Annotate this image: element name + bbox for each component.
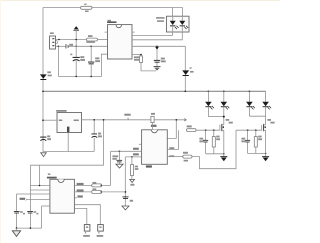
- node gate2-R7 junction: [255, 129, 257, 131]
- ground: [12, 231, 20, 237]
- node bus-LED2 junction: [223, 91, 225, 93]
- capacitor C5: [91, 119, 102, 152]
- wire drop to lower net: [103, 120, 105, 165]
- wire LED box feeds: [172, 8, 174, 17]
- battery symbol: [65, 44, 68, 48]
- resistor R7: [254, 130, 262, 153]
- wire gate2: [236, 129, 262, 131]
- node gate2-C8 junction: [247, 129, 249, 131]
- ground cell2: [262, 153, 269, 161]
- node gnd-C10 junction: [30, 227, 32, 229]
- wire U3 pinR5 to pad1: [74, 208, 86, 224]
- node U3 pin1 junction: [39, 185, 41, 187]
- diode D2: [182, 67, 193, 76]
- capacitor C7: [199, 130, 208, 154]
- wire to U1 pin2: [68, 45, 107, 47]
- wire U3 pin2: [30, 189, 50, 191]
- wire gate2 route: [192, 130, 236, 169]
- node gnd-C9 junction: [16, 227, 18, 229]
- wire U3 pin1: [30, 185, 50, 187]
- resistor R4 gate1: [187, 129, 197, 132]
- pin labels right: [169, 147, 174, 149]
- node VCC-wire1 junction: [75, 39, 77, 41]
- wire U3 pin5: [42, 205, 50, 207]
- node 4.2V line end arrow: [184, 119, 186, 122]
- resistor R9: [92, 190, 102, 193]
- LED D6: [262, 102, 271, 116]
- LED D4: [221, 102, 230, 117]
- resistor R3: [130, 156, 139, 182]
- wire lower vcc link: [30, 164, 103, 166]
- wire stub: [139, 143, 142, 145]
- power flag VCC arrow: [74, 26, 79, 29]
- MCU U3: [47, 173, 75, 213]
- IC U1 charger BQ2057: [107, 20, 132, 59]
- wire LED A cathode to U1: [132, 32, 173, 35]
- LED B: [179, 17, 188, 31]
- wire J1 pin2: [56, 45, 66, 47]
- node R2 top junction: [140, 54, 142, 56]
- wire cell1 bottom: [206, 153, 224, 155]
- wire cell2 join: [249, 115, 265, 117]
- wire U3 pinR1: [74, 184, 91, 186]
- wire to U2: [102, 151, 111, 185]
- node R9-U2 junction: [125, 191, 127, 193]
- node bus-LED1 junction: [208, 91, 210, 93]
- wire to U2 vertical: [102, 157, 126, 206]
- wire gnd bus bottom: [17, 227, 42, 229]
- LED box U5: [156, 16, 189, 32]
- wire top rail: [43, 7, 183, 9]
- wire cell2 bottom: [248, 152, 266, 154]
- node J1 gnd junction: [58, 46, 60, 48]
- wire LED B cathode to U1: [132, 32, 182, 40]
- capacitor C8: [241, 130, 250, 153]
- node bus-D2 junction: [185, 91, 187, 93]
- wire U1 pin to D2: [132, 45, 185, 47]
- capacitor C6 104: [112, 151, 123, 169]
- wire J1 gnd drop: [57, 46, 59, 76]
- wire left cap drop: [16, 194, 18, 228]
- wire gnd rail: [43, 151, 94, 153]
- wire U2 pin feed: [167, 120, 176, 139]
- transistor Q1: [220, 117, 233, 154]
- capacitor C3: [154, 59, 160, 62]
- wire U3 pinR3 stub: [74, 197, 77, 199]
- wire left vertical main: [42, 8, 44, 152]
- touch pad S1: [83, 225, 90, 237]
- wire J1 pin1 to R1: [56, 39, 87, 41]
- node U1 pin wire junction: [156, 46, 158, 48]
- diode D7 small marker: [155, 47, 159, 50]
- capacitor C10: [27, 211, 38, 214]
- wire drop left: [29, 165, 31, 228]
- resistor R8: [92, 184, 102, 187]
- resistor R11 1M: [151, 116, 154, 122]
- power VCC label: [20, 198, 25, 200]
- node cell1 source junction: [223, 153, 225, 155]
- regulator U4: [56, 110, 81, 132]
- wire R1 to U1: [98, 39, 108, 41]
- wire vcc stem: [75, 30, 77, 57]
- transistor Q2: [262, 116, 275, 153]
- node Q1 drain junction: [223, 116, 225, 118]
- node bus-left junction: [42, 91, 44, 93]
- capacitor C11: [122, 196, 128, 199]
- capacitor C2: [88, 46, 100, 77]
- capacitor C9: [14, 211, 25, 214]
- wire LED feeds cell2: [249, 91, 265, 102]
- label 4.2V flag: [124, 114, 130, 116]
- wire U3 pinR2: [74, 191, 91, 193]
- ground: [154, 63, 161, 71]
- wire main bus: [43, 90, 266, 92]
- wire U3 pinR4 to pad2: [74, 205, 100, 225]
- wire U3 pin3: [17, 193, 50, 195]
- wire RstB pin2: [125, 156, 141, 158]
- fuse F1: [81, 6, 93, 9]
- wire R2 to gnd: [141, 62, 156, 71]
- node gate1-R5 junction: [213, 129, 215, 131]
- LED D3: [205, 102, 214, 117]
- ground cell1: [220, 154, 227, 162]
- wire stem: [156, 50, 158, 60]
- wire LED feeds cell1: [208, 91, 223, 102]
- wire gnd return: [58, 54, 107, 76]
- resistor R1 1.8K: [87, 38, 98, 41]
- wire U1 stubs: [105, 31, 135, 33]
- wire RstB pin1: [111, 150, 142, 152]
- node J1 pin1 junction: [58, 39, 60, 41]
- wire drop 2: [39, 165, 41, 185]
- node C1 return junction: [75, 76, 77, 78]
- wire D2 drop: [184, 46, 186, 91]
- node cell2 source junction: [265, 153, 267, 155]
- capacitor C4: [40, 135, 51, 140]
- wire 4.2V line: [82, 119, 187, 121]
- resistor R2 430: [140, 56, 143, 63]
- MCU U2: [142, 130, 168, 168]
- resistor R5: [212, 130, 220, 154]
- node C2 return junction: [90, 76, 92, 78]
- LED D5: [246, 102, 255, 116]
- resistor R6 gate2: [183, 155, 192, 158]
- wire cell1 join: [208, 116, 223, 118]
- wire U1 pin4: [132, 54, 141, 56]
- wire U2 gate1 pin: [167, 130, 178, 149]
- connector J1: [50, 32, 58, 49]
- node gate1-C7 junction: [205, 129, 207, 131]
- wire VIN: [43, 119, 57, 121]
- touch pad S2: [97, 225, 104, 237]
- capacitor C1: [70, 54, 85, 77]
- node bus-LED3 junction: [249, 91, 251, 93]
- node VCC-wire2 junction: [75, 46, 77, 48]
- wire gate1: [196, 129, 220, 131]
- ground arrow: [122, 206, 129, 210]
- ground arrow: [41, 153, 47, 157]
- LED A: [170, 17, 179, 31]
- wire reg gnd: [67, 133, 69, 152]
- wire U2 gate2 pin: [167, 156, 183, 158]
- diode D1: [40, 71, 52, 80]
